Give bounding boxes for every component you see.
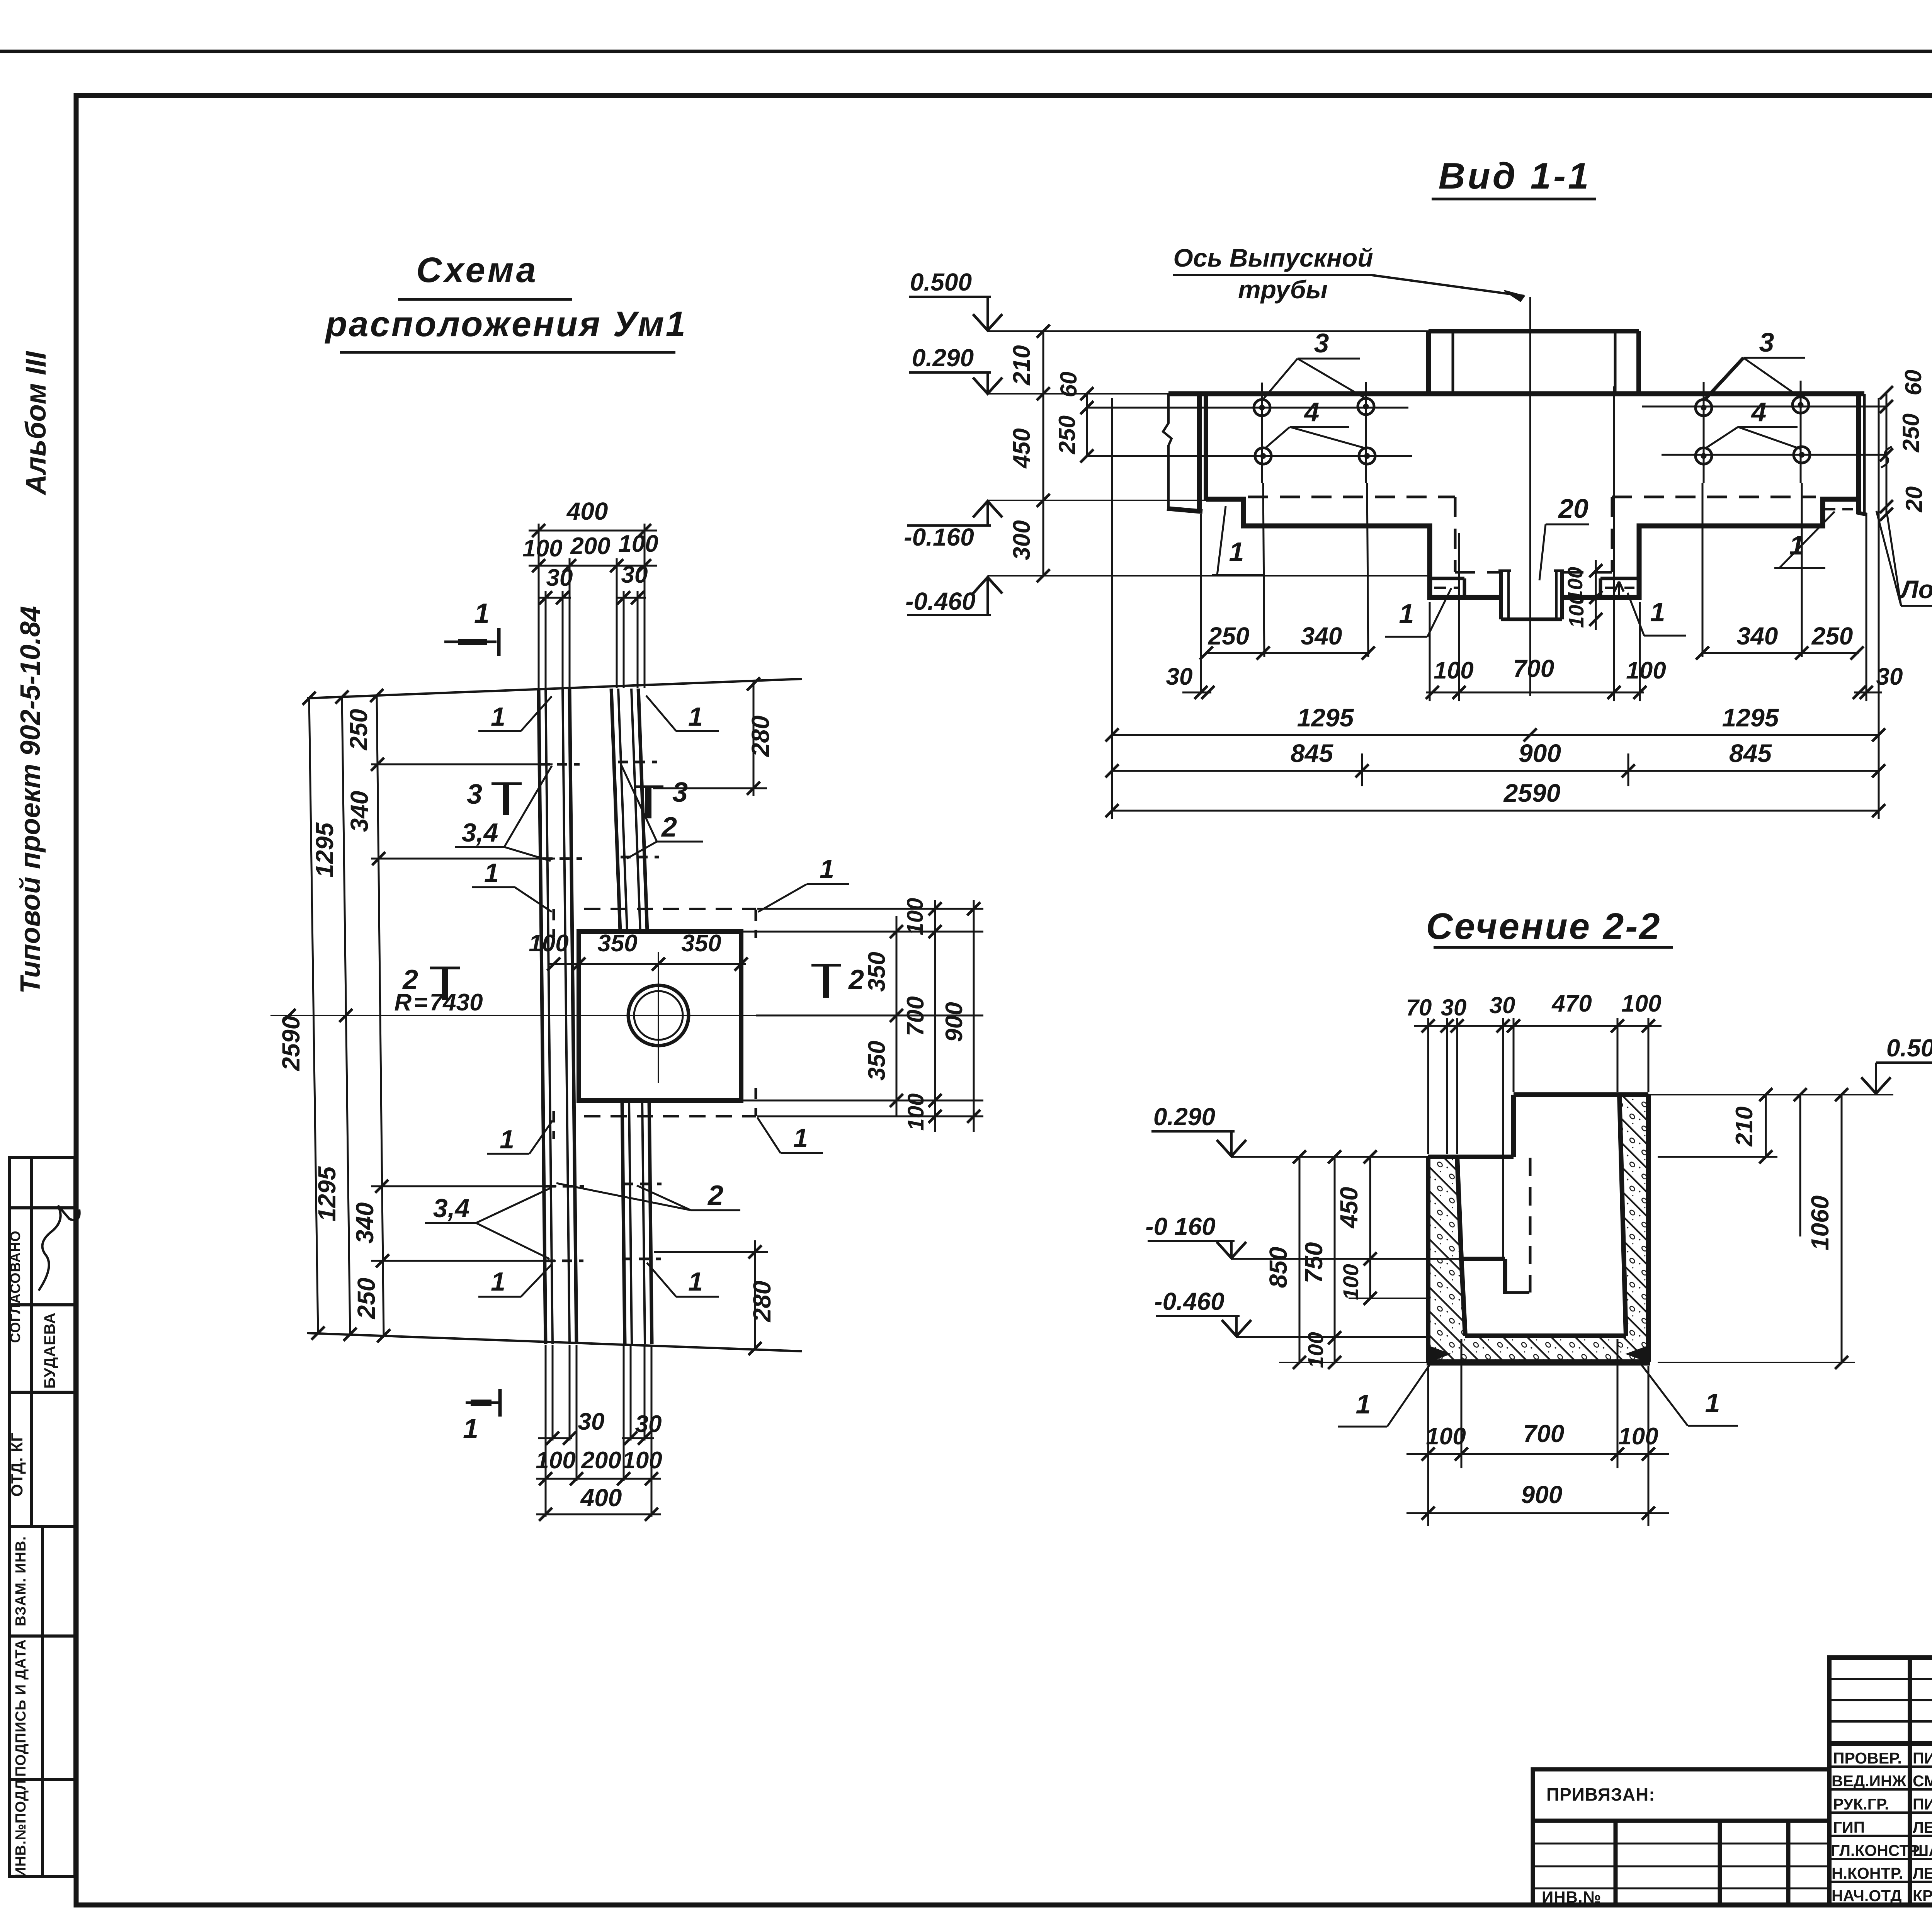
svg-text:4: 4 [1304,397,1320,427]
svg-text:700: 700 [1513,655,1554,682]
svg-text:100: 100 [1338,1264,1363,1300]
svg-text:-0.460: -0.460 [905,587,975,615]
view 1-1 bottom dims row 250/340 left [1201,514,1370,692]
svg-text:РУК.ГР.: РУК.ГР. [1833,1795,1889,1813]
svg-text:3,4: 3,4 [433,1194,470,1223]
svg-text:ИНВ.№: ИНВ.№ [1542,1888,1601,1906]
svg-text:ПОДПИСЬ И ДАТА: ПОДПИСЬ И ДАТА [13,1639,29,1777]
svg-text:350: 350 [597,930,637,957]
svg-text:340: 340 [345,791,373,832]
svg-text:1: 1 [1705,1388,1720,1418]
schema centrelines of hole [270,1015,756,1016]
svg-text:210: 210 [1731,1106,1758,1146]
svg-text:2: 2 [707,1180,723,1211]
schema channel walls left track [539,689,577,1344]
svg-text:1: 1 [1399,599,1414,629]
svg-text:350: 350 [681,930,721,957]
svg-text:0.290: 0.290 [1153,1103,1215,1131]
svg-text:1: 1 [1229,537,1244,567]
svg-text:100: 100 [529,930,568,957]
svg-text:210: 210 [1009,345,1035,385]
svg-text:БУДАЕВА: БУДАЕВА [41,1312,58,1388]
view 1-1 left dim chain 210/450/300 [1043,331,1044,576]
svg-text:30: 30 [635,1411,662,1437]
svg-text:100: 100 [622,1447,662,1474]
svg-text:70: 70 [1406,995,1432,1020]
svg-text:-0.460: -0.460 [1154,1287,1224,1315]
svg-text:-0 160: -0 160 [1145,1213,1215,1240]
svg-text:2590: 2590 [1503,779,1561,807]
svg-text:трубы: трубы [1238,275,1328,304]
view 1-1 step and pit outline [1206,499,1859,597]
svg-text:ЛЕВИНА: ЛЕВИНА [1913,1818,1932,1836]
svg-text:30: 30 [621,561,648,588]
svg-text:340: 340 [1301,622,1342,650]
view 1-1 right pit ledge [1600,578,1639,597]
section 2-2 outline [1428,1095,1648,1362]
svg-text:250: 250 [1054,415,1080,454]
svg-text:4: 4 [1751,397,1767,427]
svg-text:ЛЕВИНА: ЛЕВИНА [1913,1864,1932,1882]
svg-text:100: 100 [1434,657,1473,684]
section 2-2 left dims 850/750/450/100/100 [1279,1157,1430,1362]
schema channel walls right track [611,689,652,1344]
schema element top edge [307,679,802,698]
view 1-1 hidden dashed outline [1248,497,1816,572]
svg-text:1: 1 [491,702,505,731]
svg-text:350: 350 [864,952,890,992]
section 2-2 wall fills [1428,1157,1465,1338]
svg-text:100: 100 [1565,593,1588,628]
svg-text:280: 280 [747,716,774,757]
svg-text:200: 200 [581,1447,621,1474]
svg-text:400: 400 [580,1484,622,1512]
svg-text:2590: 2590 [277,1016,305,1071]
svg-text:850: 850 [1264,1247,1292,1288]
view 1-1 left pit ledge [1430,578,1464,597]
svg-text:3: 3 [1759,327,1774,357]
svg-text:340: 340 [1737,622,1778,650]
svg-text:1295: 1295 [1722,703,1779,732]
svg-text:100: 100 [903,1094,929,1131]
svg-text:100: 100 [1621,990,1661,1017]
view 1-1 left dim chain 60/250 [1086,394,1088,456]
view 1-1 anchor bolts left group [1087,382,1412,657]
view 1-1 bottom dims row 845/900/845 [1112,770,1879,772]
svg-text:ВЗАМ. ИНВ.: ВЗАМ. ИНВ. [13,1536,29,1626]
svg-text:1: 1 [1356,1389,1371,1419]
view 1-1 stub dims 100/100 [1595,560,1597,630]
svg-text:Лоток: Лоток [1899,575,1932,604]
svg-text:100: 100 [522,535,562,562]
schema box right dims [741,900,983,1132]
schema section mark 1 top [444,628,499,656]
svg-text:1: 1 [820,854,834,884]
view 1-1 top slab line 0.290 [1168,391,1864,396]
svg-text:НАЧ.ОТД: НАЧ.ОТД [1832,1887,1901,1905]
svg-text:700: 700 [1523,1420,1565,1447]
svg-text:900: 900 [941,1002,968,1042]
svg-text:350: 350 [864,1041,890,1080]
svg-text:1: 1 [491,1267,505,1296]
svg-text:1060: 1060 [1806,1196,1834,1250]
svg-text:60: 60 [1056,372,1082,398]
svg-text:60: 60 [1900,370,1926,396]
svg-text:-0.160: -0.160 [904,523,974,551]
schema top dim 400 [529,524,657,688]
svg-text:30: 30 [1876,663,1903,690]
svg-text:Сечение 2-2: Сечение 2-2 [1426,906,1661,947]
svg-text:1: 1 [463,1413,478,1444]
title block grid [1829,1658,1932,1905]
svg-text:700: 700 [902,996,929,1036]
svg-text:ГЛ.КОНСТР: ГЛ.КОНСТР [1831,1842,1920,1859]
section 2-2 bottom dims 100/700/100 900 [1406,1339,1669,1526]
svg-text:340: 340 [351,1202,379,1244]
view 1-1 pipe stub [1498,571,1564,619]
view 1-1 bottom dims row 340/250 right [1701,652,1859,654]
svg-text:100: 100 [618,531,658,557]
svg-text:ПРОВЕР.: ПРОВЕР. [1833,1749,1902,1767]
svg-text:280: 280 [748,1281,776,1323]
svg-text:250: 250 [352,1278,380,1320]
svg-text:250: 250 [1898,413,1924,452]
view 1-1 raised pipe block [1429,331,1639,394]
svg-text:3: 3 [467,779,482,810]
svg-text:3: 3 [1314,328,1329,358]
svg-text:ПИСЬМАН: ПИСЬМАН [1913,1795,1932,1813]
svg-text:30: 30 [1441,995,1467,1020]
svg-text:1: 1 [1650,597,1665,627]
svg-text:ГИП: ГИП [1833,1818,1865,1836]
section 2-2 top dims 70/30/30/470/100 [1414,1018,1662,1258]
svg-text:СМЫСЛОВА: СМЫСЛОВА [1913,1772,1932,1790]
schema section mark 3 right [634,787,663,818]
schema left dim chain 2590 [309,696,556,1336]
svg-text:1: 1 [474,598,490,629]
svg-text:300: 300 [1009,520,1035,560]
svg-text:100: 100 [1618,1423,1658,1450]
svg-text:ШАПИРО: ШАПИРО [1913,1842,1932,1859]
svg-text:100: 100 [903,898,928,935]
view 1-1 left break bar [1163,394,1206,512]
svg-text:Альбом III: Альбом III [20,351,52,496]
view 1-1 anchor bolts right group [1642,381,1886,657]
svg-text:расположения Ум1: расположения Ум1 [324,304,687,344]
svg-text:30: 30 [546,565,573,591]
svg-text:1: 1 [500,1125,514,1154]
svg-text:900: 900 [1519,739,1561,767]
svg-text:СОГЛАСОВАНО: СОГЛАСОВАНО [7,1230,23,1343]
privyazan table [1533,1769,1829,1905]
schema 280 dims right [653,681,768,1350]
view 1-1 bottom dims row 30/100/700/100/30 [1182,386,1882,701]
svg-text:750: 750 [1300,1242,1328,1284]
section 2-2 right dims 210/1060 [1658,1095,1855,1362]
left stamp box B (inventory columns) [9,1527,75,1877]
svg-text:0.290: 0.290 [912,344,974,372]
svg-text:250: 250 [1208,622,1250,650]
schema Um1 box [579,932,741,1100]
svg-text:200: 200 [570,533,610,560]
schema bottom dim 400 [536,1345,661,1517]
svg-text:1295: 1295 [313,1166,341,1221]
svg-text:Схема: Схема [416,250,538,290]
svg-text:450: 450 [1009,428,1035,469]
schema embedded plate marks at box corners [554,909,756,1139]
svg-text:ПИСЬМАН: ПИСЬМАН [1913,1749,1932,1767]
svg-text:Ось Выпускной: Ось Выпускной [1173,243,1373,272]
svg-text:1: 1 [484,858,499,888]
svg-text:400: 400 [566,497,608,525]
svg-text:1: 1 [688,1267,703,1296]
svg-text:Вид 1-1: Вид 1-1 [1439,155,1591,197]
svg-text:30: 30 [578,1408,605,1435]
svg-text:1: 1 [793,1123,808,1153]
svg-text:R = 7430: R = 7430 [394,989,483,1016]
schema section mark 2 left [430,968,460,1000]
schema section mark 2 right [811,965,841,998]
svg-text:3,4: 3,4 [462,818,498,847]
svg-text:0.500: 0.500 [910,268,972,296]
svg-text:3: 3 [672,777,688,808]
pipe axis centreline [1529,297,1531,696]
schema embedded plate marks on tracks [540,762,662,1261]
svg-text:30: 30 [1490,992,1515,1018]
svg-text:ОТД. КГ: ОТД. КГ [8,1432,26,1497]
svg-text:ВЕД.ИНЖ: ВЕД.ИНЖ [1832,1772,1907,1790]
svg-text:2: 2 [661,812,677,843]
svg-text:20: 20 [1901,486,1927,513]
schema pipe hole circle [628,985,689,1046]
view 1-1 right break bar [1856,394,1867,515]
schema box top dims 100 350 350 [549,963,746,965]
schema section mark 1 bottom [466,1389,500,1417]
schema element bottom edge [307,1333,802,1351]
section 2-2 corner blobs [1428,1345,1451,1362]
svg-text:Типовой проект 902-5-10.84: Типовой проект 902-5-10.84 [15,606,46,994]
svg-text:250: 250 [345,709,372,751]
left stamp box A (agreement stamp) [9,1158,75,1527]
svg-text:30: 30 [1166,663,1193,690]
svg-text:КРАСАВИН: КРАСАВИН [1913,1887,1932,1905]
svg-text:0.500: 0.500 [1886,1034,1932,1062]
svg-text:20: 20 [1558,493,1588,524]
stamp A signature [39,1206,80,1291]
svg-text:470: 470 [1551,990,1592,1017]
section 2-2 hidden stub edge [1529,1158,1532,1293]
svg-text:450: 450 [1335,1187,1363,1229]
svg-text:ИНВ.№ПОДЛ: ИНВ.№ПОДЛ [13,1779,29,1878]
svg-text:1295: 1295 [311,822,338,878]
view 1-1 right dim chain 60/250/20 [1886,393,1888,514]
svg-text:ПРИВЯЗАН:: ПРИВЯЗАН: [1546,1784,1655,1804]
svg-text:Н.КОНТР.: Н.КОНТР. [1832,1864,1903,1882]
svg-text:100: 100 [1626,657,1666,684]
section 2-2 pipe stub lines [1459,1259,1505,1294]
svg-text:1: 1 [688,702,703,731]
view 1-1 bottom dims row 2590 [1112,810,1879,812]
svg-text:1295: 1295 [1297,703,1354,732]
view 1-1 bottom dims row 1295/1295 [1112,398,1879,819]
sheet top trim line [0,50,1932,53]
view 1-1 level extension lines [988,331,1430,576]
svg-text:900: 900 [1521,1481,1563,1509]
schema hidden edges near box [584,909,756,1116]
schema section mark 3 left [492,784,522,815]
svg-text:845: 845 [1729,739,1772,767]
svg-text:250: 250 [1811,622,1853,650]
svg-text:100: 100 [1426,1423,1466,1450]
svg-text:100: 100 [1303,1332,1328,1368]
svg-text:100: 100 [536,1447,575,1474]
title block role labels [1831,1749,1932,1905]
svg-text:2: 2 [848,964,864,995]
svg-text:845: 845 [1291,739,1333,767]
